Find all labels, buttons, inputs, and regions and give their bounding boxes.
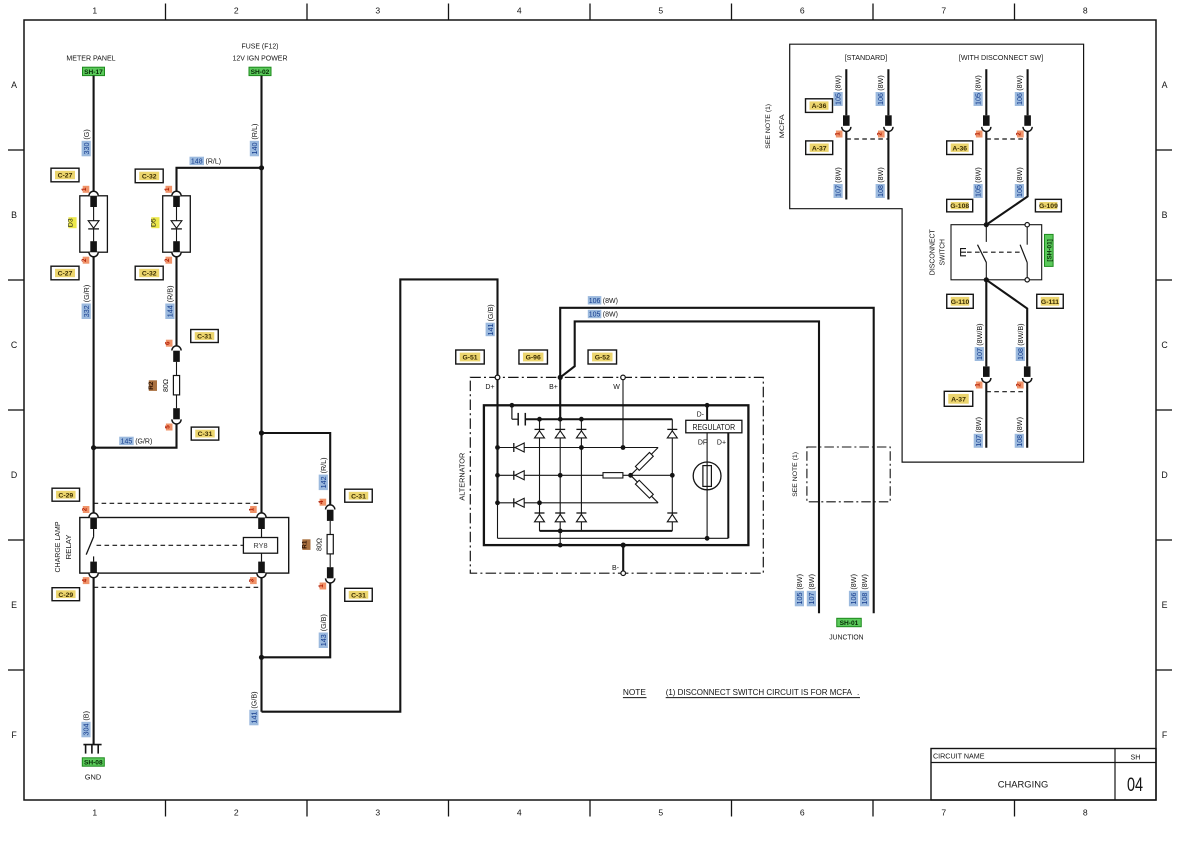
ground symbol [83,745,101,754]
svg-text:[WITH DISCONNECT SW]: [WITH DISCONNECT SW] [959,53,1043,62]
svg-text:5: 5 [658,808,663,818]
svg-text:SH-08: SH-08 [84,760,103,767]
disconnect wire 107 (8W/B) [985,280,987,367]
disconnect connector pin 1 [982,115,991,131]
wire label 332 (G/R) [82,285,91,319]
svg-text:GND: GND [85,773,101,782]
svg-text:SH-17: SH-17 [84,69,103,76]
svg-text:142: 142 [319,476,328,488]
switch pole 2 [1020,223,1029,282]
title block [931,749,1156,801]
wire 148 (R/L) branch to diode D5 [177,168,262,191]
wire 145 (G/R) from R2 joining meter-panel wire [94,424,177,448]
svg-text:330: 330 [82,143,91,155]
standard wire label 107 (8W) [834,167,843,198]
pin 1 label A-37 (disconnect) [974,382,982,389]
svg-text:80Ω: 80Ω [163,379,170,392]
standard wire 105 (8W) upper [845,69,847,115]
disconnect wire label 108 (8W) lower [1015,417,1024,448]
wire label 145 (G/R) [119,437,152,446]
svg-text:141: 141 [486,323,495,335]
alternator dash-dot boundary [470,377,763,573]
svg-text:F: F [1162,730,1168,740]
svg-text:6: 6 [164,341,171,345]
svg-text:141: 141 [250,712,259,724]
relay mechanical dashed link [97,544,244,546]
svg-text:6: 6 [800,6,805,16]
svg-text:E: E [11,600,17,610]
svg-text:140: 140 [250,143,259,155]
wire label 141 (G/B) lower [249,691,258,725]
svg-text:(B): (B) [82,711,91,721]
sheet link SH-08 [82,758,104,767]
rectifier auxiliary leg [670,419,675,531]
connector C-31 (below R1) [345,588,373,601]
svg-text:(8W/B): (8W/B) [975,323,984,345]
svg-text:(1) DISCONNECT SWITCH CIRCUIT: (1) DISCONNECT SWITCH CIRCUIT IS FOR MCF… [666,688,853,697]
wire 143 (G/B) from R1 back to relay wire [262,583,331,657]
connector C-32 (bottom) [135,266,163,280]
svg-text:(R/L): (R/L) [206,159,222,166]
svg-text:METER PANEL: METER PANEL [66,54,116,63]
disconnect wire label 105 (8W) upper [974,75,983,106]
svg-text:(G/B): (G/B) [319,614,328,631]
svg-text:REGULATOR: REGULATOR [692,423,735,432]
section title WITH DISCONNECT SW [959,53,1043,62]
field return line [498,536,729,541]
regulator D+ lead [727,433,729,539]
pin 1 label (standard) [834,131,842,138]
svg-text:7: 7 [941,808,946,818]
see note text at junction [792,452,799,497]
relay pin 2 terminal [89,513,98,529]
wire label 142 (R/L) [319,457,328,490]
resistor R1 80 ohm [302,505,335,583]
wire label 144 (R/B) [165,286,174,319]
svg-text:D: D [11,470,17,480]
svg-text:(G/B): (G/B) [250,691,259,708]
svg-text:148: 148 [191,159,203,166]
svg-text:106: 106 [1015,185,1024,197]
wire label 140 (R/L) [250,124,259,157]
connector A-37 (standard) [806,141,833,155]
connector C-32 (top) [135,169,163,183]
svg-text:2: 2 [1016,132,1023,136]
terminal B+ [549,375,563,391]
svg-text:(G): (G) [82,129,91,139]
junction wire labels 106/108 [849,574,869,606]
svg-text:4: 4 [517,808,522,818]
regulator DF lead with rotor brush [706,433,708,539]
svg-text:(8W): (8W) [1015,167,1024,183]
MCFA panel outline [790,44,1084,462]
junction of 143 with relay pin 3 wire [259,655,264,660]
pin 4 of C-29 [81,577,89,584]
svg-text:3: 3 [375,6,380,16]
svg-text:(R/B): (R/B) [166,286,175,303]
svg-text:SH-02: SH-02 [251,69,270,76]
svg-text:A: A [1162,80,1168,90]
disconnect wire 106 (8W) upper [1027,69,1029,115]
disconnect wire label 105 (8W) mid [974,167,983,198]
svg-text:4: 4 [318,500,325,504]
exciter diode 1 [514,443,524,452]
svg-text:106: 106 [589,298,601,305]
sheet link SH-02 [249,67,271,76]
wire label 106 (8W) [588,296,618,305]
connector G-108 [947,199,973,212]
svg-text:(R/L): (R/L) [319,457,328,473]
alternator name [457,452,466,500]
disconnect wire 107 (8W) lower [985,383,987,448]
svg-text:B: B [11,210,17,220]
sheet link SH-01 rotated [1045,234,1054,266]
svg-text:(8W): (8W) [1015,417,1024,433]
svg-text:R2: R2 [148,381,155,390]
svg-text:SH-01: SH-01 [840,620,859,627]
svg-text:A: A [11,80,17,90]
disconnect wire label 108 (8W/B) [1016,323,1025,361]
svg-text:MCFA: MCFA [779,114,786,138]
stator phase line 1 [498,445,659,450]
svg-text:3: 3 [249,578,256,582]
rectifier diode top 4 [667,429,677,438]
wire 144 (R/B) from D5 to resistor R2 [175,257,177,346]
disconnect wire 108 (8W) lower [1026,383,1028,448]
pin 3 of C-29 [249,577,257,584]
svg-text:108: 108 [876,185,885,197]
svg-text:(G/R): (G/R) [135,439,152,446]
svg-text:04: 04 [1127,774,1143,796]
rectifier negative rail [540,529,673,534]
disconnect connector dashed boundary [986,138,1027,140]
svg-text:(8W): (8W) [603,312,618,319]
pin 1 of C-29 [249,506,257,513]
terminal W [613,375,625,391]
node FUSE (F12) 12V IGN POWER label [233,42,288,63]
wire 106 (8W) from B+ to junction [560,308,874,613]
wire label 148 (R/L) [190,157,222,166]
svg-text:A-37: A-37 [812,145,827,152]
svg-text:4: 4 [81,578,88,582]
disconnect wire 106 to switch [986,132,1027,225]
svg-text:(R/L): (R/L) [250,124,259,140]
svg-text:(8W): (8W) [876,75,885,91]
terminal D+ [485,375,499,391]
svg-text:W: W [613,384,620,391]
svg-text:C-31: C-31 [198,431,213,438]
wire 105 (8W) from B+ to junction [560,321,819,613]
relay name CHARGE LAMP RELAY [53,522,73,573]
disconnect wire label 107 (8W) lower [974,417,983,448]
connector A-36 (standard) [806,99,833,113]
svg-text:(8W): (8W) [1015,75,1024,91]
svg-text:143: 143 [319,634,328,646]
pin 2 of C-27 [81,257,89,264]
standard connector pin 2 [884,115,893,131]
svg-text:G-52: G-52 [595,355,610,362]
rectifier diode bottom 2 [555,513,565,522]
svg-text:D+: D+ [485,384,494,391]
svg-text:108: 108 [1015,435,1024,447]
stator phase line 3 [498,502,659,504]
svg-text:6: 6 [800,808,805,818]
svg-text:106: 106 [1015,93,1024,105]
standard wire label 106 (8W) upper [876,75,885,106]
node JUNCTION label [829,632,863,641]
junction on wire 332/145 [91,445,96,450]
svg-text:R1: R1 [302,540,309,549]
svg-text:G-51: G-51 [462,355,477,362]
switch pole 1 [978,222,989,282]
svg-text:ALTERNATOR: ALTERNATOR [457,452,466,500]
svg-text:2: 2 [164,258,171,262]
rectifier diode bottom 3 [576,513,586,522]
pin 2 label A-37 (disconnect) [1016,382,1024,389]
svg-text:CHARGE LAMP: CHARGE LAMP [53,522,62,573]
svg-text:C-27: C-27 [58,173,73,180]
pin 1 label (disconnect) [974,131,982,138]
suppression capacitor [510,403,526,426]
svg-text:1: 1 [834,132,841,136]
wire label 105 (8W) [588,310,618,319]
svg-text:12V IGN POWER: 12V IGN POWER [233,54,288,63]
connector G-109 [1035,199,1061,212]
see note text left of panel [765,104,772,149]
connector C-29 (top label) [52,488,80,501]
wire label 330 (G) [82,129,91,156]
wire 142 (R/L) branch to resistor R1 [262,433,331,505]
svg-text:C-31: C-31 [351,493,366,500]
node GND label [85,773,101,782]
svg-text:2: 2 [81,258,88,262]
svg-text:D3: D3 [68,218,75,227]
switch manual operator [961,249,966,256]
svg-text:(8W): (8W) [807,574,816,590]
svg-text:G-96: G-96 [526,355,541,362]
svg-text:332: 332 [82,305,91,317]
svg-text:C-29: C-29 [58,492,73,499]
rectifier leg 2 / B+ feed [558,377,563,547]
wire 304 (B) from relay pin 4 to ground [93,578,95,745]
svg-text:1: 1 [249,507,256,511]
svg-text:(8W/B): (8W/B) [1016,323,1025,345]
A-37 connector pin 1 (disconnect) [982,366,991,382]
see note dash-dot box at junction [807,447,890,502]
svg-text:CIRCUIT NAME: CIRCUIT NAME [933,754,985,761]
svg-text:1: 1 [92,6,97,16]
svg-text:A-36: A-36 [952,145,967,152]
svg-text:4: 4 [517,6,522,16]
svg-text:1: 1 [92,808,97,818]
svg-text:(8W): (8W) [876,167,885,183]
svg-text:(8W): (8W) [974,75,983,91]
exciter diode 2 [514,471,524,480]
A-37 connector pin 2 (disconnect) [1023,366,1032,382]
svg-text:.: . [857,688,859,697]
standard wire 107 (8W) lower [845,132,847,200]
svg-text:7: 7 [941,6,946,16]
svg-text:5: 5 [658,6,663,16]
svg-text:D+: D+ [717,439,726,446]
svg-text:C-31: C-31 [197,334,212,341]
stator phase line 2 [498,474,631,476]
svg-text:80Ω: 80Ω [317,538,324,551]
MCFA text left of panel [779,114,786,138]
connector C-29 (bottom label) [52,588,80,601]
svg-text:1: 1 [81,187,88,191]
disconnect wire 105 to switch [985,132,987,225]
exciter diode 3 [514,498,524,507]
svg-text:2: 2 [81,507,88,511]
svg-text:G-111: G-111 [1041,299,1059,306]
standard wire 106 (8W) upper [887,69,889,115]
disconnect wire label 107 (8W/B) [975,323,984,361]
pin 4 of C-31 [318,499,326,506]
relay switch contact [86,529,93,562]
svg-text:B+: B+ [549,384,558,391]
svg-text:RELAY: RELAY [64,535,73,560]
section title STANDARD [845,53,888,62]
connector G-52 [588,350,617,364]
connector C-31 (below R2) [191,427,219,440]
standard wire label 108 (8W) [876,167,885,198]
svg-text:2: 2 [877,132,884,136]
wire label 143 (G/B) [319,614,328,648]
connector G-51 [456,350,485,364]
svg-text:1: 1 [974,383,981,387]
svg-text:2: 2 [234,6,239,16]
pin 1 of C-32 [164,186,172,193]
svg-text:C: C [1161,340,1168,350]
pin 5 of C-31 [164,424,172,431]
D+ exciter bus [495,375,500,538]
standard connector dashed boundary [846,138,888,140]
rectifier diode top 2 [555,429,565,438]
svg-text:FUSE (F12): FUSE (F12) [242,42,279,51]
svg-text:SH: SH [1131,753,1141,762]
sheet link SH-01 at junction [837,618,862,627]
svg-text:1: 1 [164,187,171,191]
W sense wire [622,380,624,448]
switch mechanical dashed link [967,251,1021,253]
svg-text:A-36: A-36 [812,103,827,110]
regulator D- lead [697,403,710,420]
svg-text:(8W): (8W) [974,167,983,183]
connector C-27 (bottom) [51,266,79,280]
svg-text:DISCONNECT: DISCONNECT [928,229,937,276]
svg-text:F: F [11,730,17,740]
svg-text:145: 145 [121,439,133,446]
wire label 304 (B) [81,711,90,737]
connector G-111 [1037,294,1064,308]
svg-text:(8W): (8W) [849,574,858,590]
charge lamp relay RY8 box [80,518,289,574]
standard wire label 105 (8W) upper [834,75,843,106]
svg-text:108: 108 [1016,348,1025,360]
svg-text:B-: B- [612,565,620,572]
relay pin 3 terminal [257,553,266,577]
svg-text:1: 1 [318,584,325,588]
svg-text:1: 1 [974,132,981,136]
relay coil box RY8 [243,538,277,554]
svg-text:C-29: C-29 [58,592,73,599]
node METER PANEL label [66,54,116,63]
connector A-37 (disconnect) [944,391,973,406]
svg-text:A-37: A-37 [951,396,966,403]
svg-text:107: 107 [834,185,843,197]
svg-text:SWITCH: SWITCH [938,239,947,265]
connector C-27 (top) [51,168,79,182]
svg-text:G-110: G-110 [951,299,970,306]
relay pin 4 terminal [89,562,98,578]
svg-text:D5: D5 [151,218,158,227]
standard wire 108 (8W) lower [887,132,889,200]
svg-text:C-32: C-32 [142,174,157,181]
wire 330 (G) from SH-17 to diode D3 [93,76,95,192]
svg-text:105: 105 [795,593,804,605]
connector C-31 (above R1) [345,489,373,502]
pin 1 of C-27 [81,186,89,193]
stator star point and windings [603,448,672,503]
svg-text:105: 105 [589,312,601,319]
svg-text:8: 8 [1083,6,1088,16]
rectifier diode top 1 [535,429,545,438]
connector C-31 (above R2) [191,330,219,343]
connector G-110 [947,294,974,308]
svg-text:SEE NOTE (1): SEE NOTE (1) [792,452,799,497]
svg-text:D-: D- [697,412,705,419]
rectifier diode bottom 1 [535,513,545,522]
svg-text:108: 108 [860,593,869,605]
standard connector pin 1 [842,115,851,131]
rectifier positive rail [525,417,672,422]
svg-text:105: 105 [974,185,983,197]
svg-text:107: 107 [807,593,816,605]
disconnect switch name [928,229,947,276]
disconnect switch box [951,225,1042,280]
connector C-29 dashed boundary (top) [94,502,262,504]
svg-text:(8W): (8W) [795,574,804,590]
svg-text:NOTE: NOTE [623,688,647,697]
rectifier leg 1 [537,419,542,531]
wire 332 (G/R) from D3 to charge lamp relay [93,257,95,513]
svg-text:C-32: C-32 [142,271,157,278]
diode D3 [68,191,108,257]
svg-text:(8W): (8W) [834,167,843,183]
svg-text:(8W): (8W) [603,298,618,305]
svg-text:(8W): (8W) [834,75,843,91]
svg-text:B: B [1162,210,1168,220]
svg-text:[SH-01]: [SH-01] [1046,239,1053,261]
pin 6 of C-31 [164,340,172,347]
connector G-96 [519,350,548,364]
svg-text:(8W): (8W) [860,574,869,590]
svg-text:107: 107 [975,348,984,360]
svg-text:D: D [1161,470,1167,480]
svg-text:2: 2 [234,808,239,818]
rectifier diode bottom 4 [667,513,677,522]
wire 140 (R/L) from SH-02 down to relay pin 1 [260,76,262,513]
wire 141 (G/B) from relay pin 3 to alternator D+ [262,279,498,711]
pin 1 of C-31 [318,583,326,590]
A-37 dashed boundary (disconnect) [986,391,1027,393]
svg-text:105: 105 [974,93,983,105]
svg-text:5: 5 [164,425,171,429]
svg-text:E: E [1162,600,1168,610]
svg-text:106: 106 [876,93,885,105]
svg-text:144: 144 [166,305,175,317]
